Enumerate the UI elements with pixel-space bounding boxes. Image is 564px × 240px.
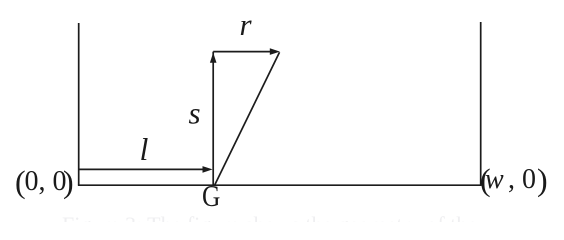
baseline from (0,0) to (w,0) bbox=[78, 184, 482, 186]
svg-text:, 0: , 0 bbox=[508, 164, 536, 195]
wire: resultant slant line from G bbox=[215, 52, 280, 185]
svg-text:w: w bbox=[485, 164, 504, 195]
svg-text:G: G bbox=[202, 180, 220, 214]
arrowhead of l vector bbox=[203, 166, 213, 173]
svg-text:r: r bbox=[240, 7, 253, 42]
svg-text:0, 0: 0, 0 bbox=[25, 166, 67, 197]
left boundary vertical line bbox=[78, 23, 80, 185]
wire: s vector shaft bbox=[212, 52, 214, 186]
svg-text:): ) bbox=[537, 162, 548, 198]
svg-text:s: s bbox=[189, 96, 201, 131]
svg-text:l: l bbox=[140, 131, 149, 167]
wire: r vector shaft bbox=[213, 51, 272, 53]
label (w,0) bbox=[480, 162, 548, 198]
arrowhead of r vector bbox=[270, 48, 280, 55]
label (0,0) bbox=[15, 164, 74, 200]
arrowhead of s vector bbox=[210, 53, 217, 63]
faint cut-off caption letter tops bbox=[62, 214, 482, 222]
svg-text:): ) bbox=[63, 164, 74, 200]
right boundary vertical line bbox=[480, 22, 482, 185]
wire: l vector shaft bbox=[79, 168, 205, 170]
